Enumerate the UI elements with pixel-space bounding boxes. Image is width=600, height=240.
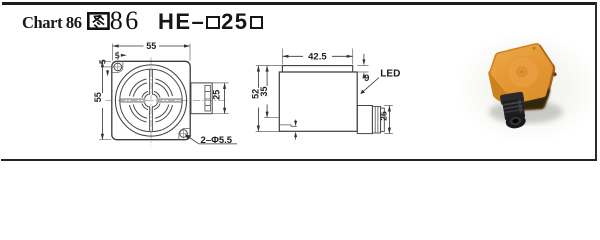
connector [500,91,529,130]
lid corner screw top [533,47,536,50]
witness bottom 35 [264,117,279,119]
side body rect [279,72,357,131]
svg-text:25: 25 [378,111,388,121]
mounting hole bottom-right [178,128,188,138]
frame bottom bar [1,159,597,161]
front square body [112,61,190,139]
face ring 2 [120,69,182,131]
dim 25 side line + arrows [388,106,390,134]
title HE-box25box [158,9,264,35]
frame top bar [2,2,597,5]
hole boss bottom-right [179,129,190,140]
dim 25 front line + arrows [224,83,226,113]
mounting hole top-left [113,62,124,73]
face ring 3 (broken arcs) [130,79,173,122]
face rib slots cross [120,70,182,132]
lid corner screw right [553,72,557,76]
svg-text:55: 55 [146,41,156,51]
frame right bar [595,2,597,161]
front connector body [191,83,212,114]
leader 2-phi5.5 [186,136,237,144]
side cap rect [282,66,352,72]
side bottom step [280,125,297,126]
sensor body silhouette [488,43,555,110]
svg-text:LED: LED [380,69,400,80]
dim 25 side witness lines [384,106,393,134]
dim 5 top arrow [121,54,124,56]
svg-text:42.5: 42.5 [308,52,327,63]
dim 55 top line + arrows [113,45,190,47]
svg-text:25: 25 [212,90,222,100]
face center ring inner [145,94,158,107]
centerline vertical [150,58,152,146]
title Chart 86 [22,13,82,33]
centerline horizontal [106,100,228,102]
side connector end [381,108,385,132]
sensor bottom dark face [507,88,550,110]
sensor right edge shade [539,45,556,96]
svg-text:2–Φ5.5: 2–Φ5.5 [201,135,233,146]
svg-text:35: 35 [259,86,269,96]
dim 42.5 line + arrows [283,55,353,57]
side connector rings [372,106,380,133]
title CJK 图 (drawn) + 86 [87,12,110,30]
face center ring (broken arcs) [142,91,160,109]
svg-text:5: 5 [98,59,108,64]
dim 42.5 witness lines [282,49,352,65]
svg-text:55: 55 [93,92,103,102]
sensor lid top face [490,45,553,101]
witness top (52/35) [256,65,283,67]
dim 5 left arrow [107,70,109,74]
dim 55 top witness lines [113,44,190,61]
dim 5 top hole witness [117,51,119,60]
svg-text:5: 5 [115,51,120,61]
photo shadow [489,101,563,124]
dim 9 witness lines [357,66,368,72]
dim 55 left witness lines [99,61,111,139]
step small arrows [295,120,297,123]
hole boss top-left [112,61,123,72]
witness bottom 52 [256,131,279,133]
front connector ribs [205,85,211,111]
photo background [437,30,597,152]
face ring 4 (broken arcs) [133,83,168,118]
LED leader [363,78,379,92]
dim 55 left line + arrows [101,62,103,140]
dim 35 line + arrows [266,66,268,117]
dim 5 left hole witness [104,66,114,68]
lid ring emboss [505,54,541,91]
dim 52 line + arrows [257,66,259,131]
svg-text:9: 9 [364,73,369,84]
face ring outer [115,65,186,136]
side connector base [357,106,372,134]
dim 25 front witness lines [213,83,229,114]
dim 9 arrows [363,54,365,60]
